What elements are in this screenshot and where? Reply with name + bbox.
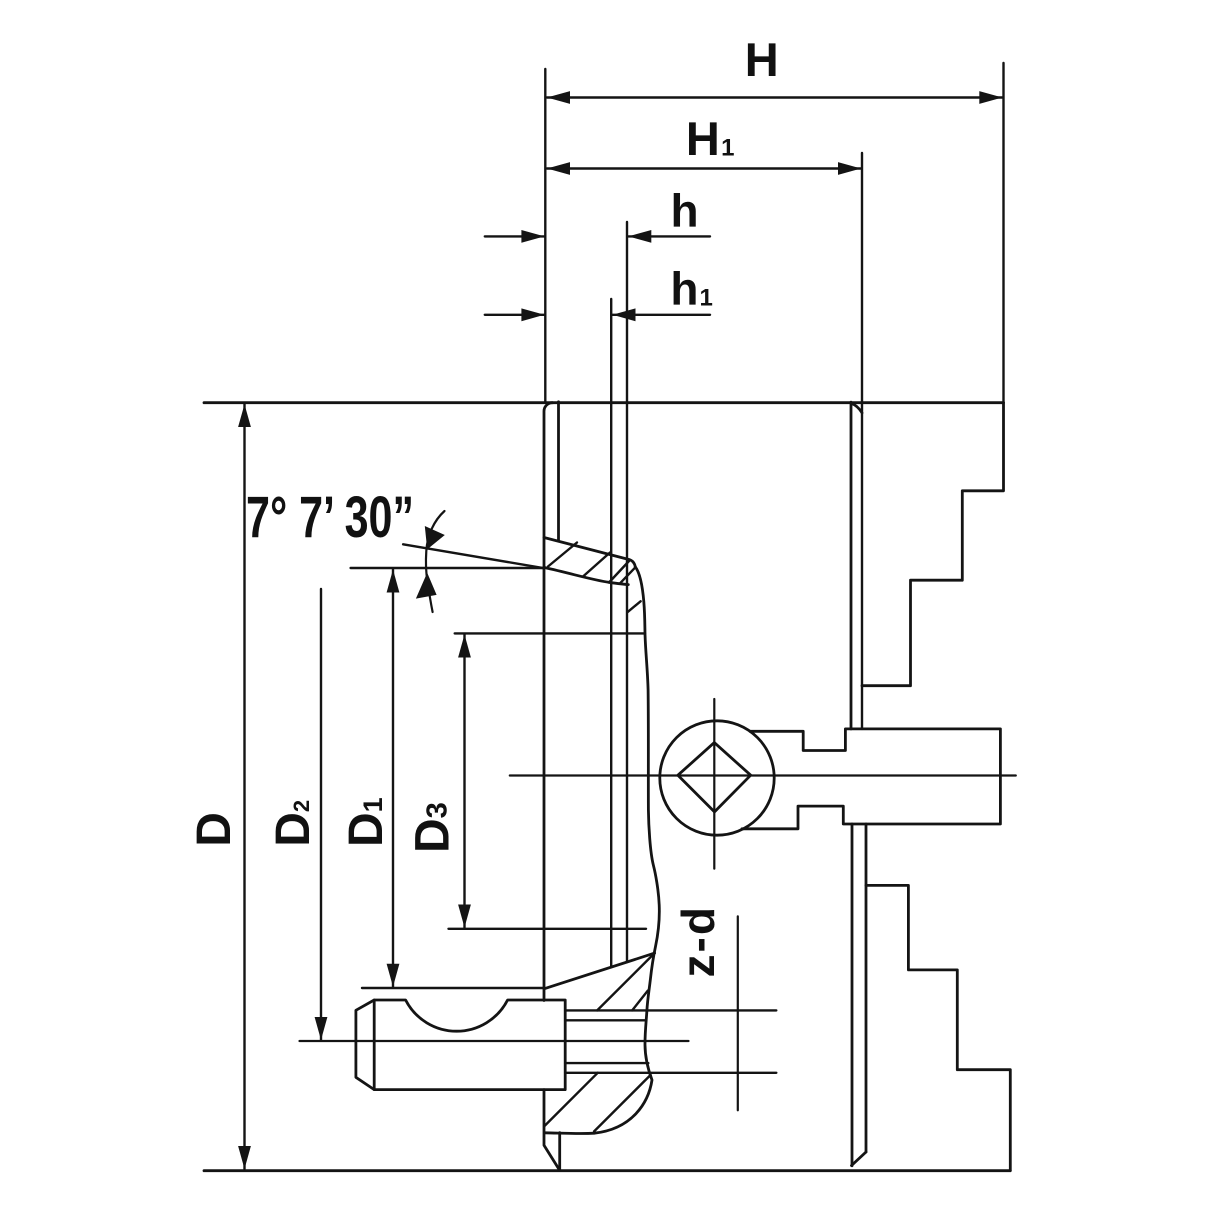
svg-text:1: 1 [700,285,713,312]
D top arrowhead [238,404,251,427]
stud centerline / D2 reference [300,1040,689,1042]
svg-text:h: h [670,263,698,315]
dimension D2 line [320,589,322,1040]
taper band top edge [544,538,635,567]
dimension H line [547,96,1002,98]
slot chamfer top [851,403,862,413]
D2 bottom arrowhead [315,1017,328,1040]
D3 top reference line [455,632,645,634]
extension line H right [1002,63,1004,402]
taper seat line [544,953,655,989]
z-d leader line [737,916,739,1110]
h1 right arrowhead [613,308,636,321]
dimension h line left tail [485,235,545,237]
front face / H1 extension line [861,153,863,729]
back face line / h extension line [626,222,628,962]
collar outer face left [544,403,553,1001]
dimension h line right tail [628,235,710,237]
D3 top arrowhead [458,635,471,658]
pinion horizontal centerline [510,774,1016,776]
flange bottom face [545,1131,595,1135]
D1 bottom arrowhead [387,964,400,987]
H left arrowhead [547,91,570,104]
stud head chamfer line [373,1000,376,1090]
angle taper line [403,544,544,568]
svg-text:7° 7’ 30”: 7° 7’ 30” [246,485,414,550]
H1 right arrowhead [838,162,861,175]
H right arrowhead [979,91,1002,104]
pinion circle [660,721,774,835]
D1 bottom reference line [362,987,545,989]
svg-text:z-d: z-d [672,905,724,977]
dimension D line [243,404,245,1169]
D3 bottom arrowhead [458,905,471,928]
D3 bottom reference line [449,928,647,930]
D1 top arrowhead [387,570,400,593]
pinion square socket [678,743,751,812]
svg-text:H: H [745,33,779,86]
hatch above stud shank [597,953,654,1010]
angle dimension arc [426,511,445,612]
flange left face below stud head [544,1090,559,1170]
stud head outline [356,1000,565,1090]
svg-text:1: 1 [721,135,734,162]
flange outer curve [594,567,659,1133]
h right arrowhead [628,230,651,243]
dimension h1 line right tail [613,314,711,316]
h left arrowhead [521,230,544,243]
hatch below stud shank [545,1073,598,1126]
angle upper arrowhead [425,526,445,549]
extension line H/h left (back face) [544,69,546,402]
stud shank thread lines [565,1009,776,1011]
H1 left arrowhead [547,162,570,175]
dimension D3 line [463,635,465,928]
front face slot line upper [850,402,853,729]
dimension h1 line left tail [485,314,545,316]
angle lower arrowhead [416,573,437,599]
h1 left arrowhead [521,308,544,321]
body bottom edge (outer diameter D, bottom) [204,1169,1010,1172]
dimension H1 line [547,167,861,169]
D1 top reference line [351,567,544,569]
svg-text:H: H [686,112,720,165]
svg-text:h: h [670,185,698,237]
collar inner wall [557,402,560,540]
D bottom arrowhead [238,1146,251,1169]
recess wall outer / h1 extension line [610,299,612,967]
body top edge (outer diameter D, top) [204,401,1004,404]
pinion boss outline [742,729,1000,829]
taper band bottom edge [544,567,628,584]
slot chamfer bottom [852,1152,867,1166]
jaw lower inner face [865,824,868,1152]
bottom jaw stepped profile [866,885,1010,1170]
top jaw stepped profile [862,403,1004,686]
pinion vertical centerline [713,699,715,869]
band hatching [545,543,655,1132]
svg-text:D: D [188,812,241,847]
flange bottom pocket wall [558,1133,561,1170]
sliver hatch [628,601,641,612]
dimension D1 line [392,570,394,987]
front face slot line lower [851,824,854,1166]
